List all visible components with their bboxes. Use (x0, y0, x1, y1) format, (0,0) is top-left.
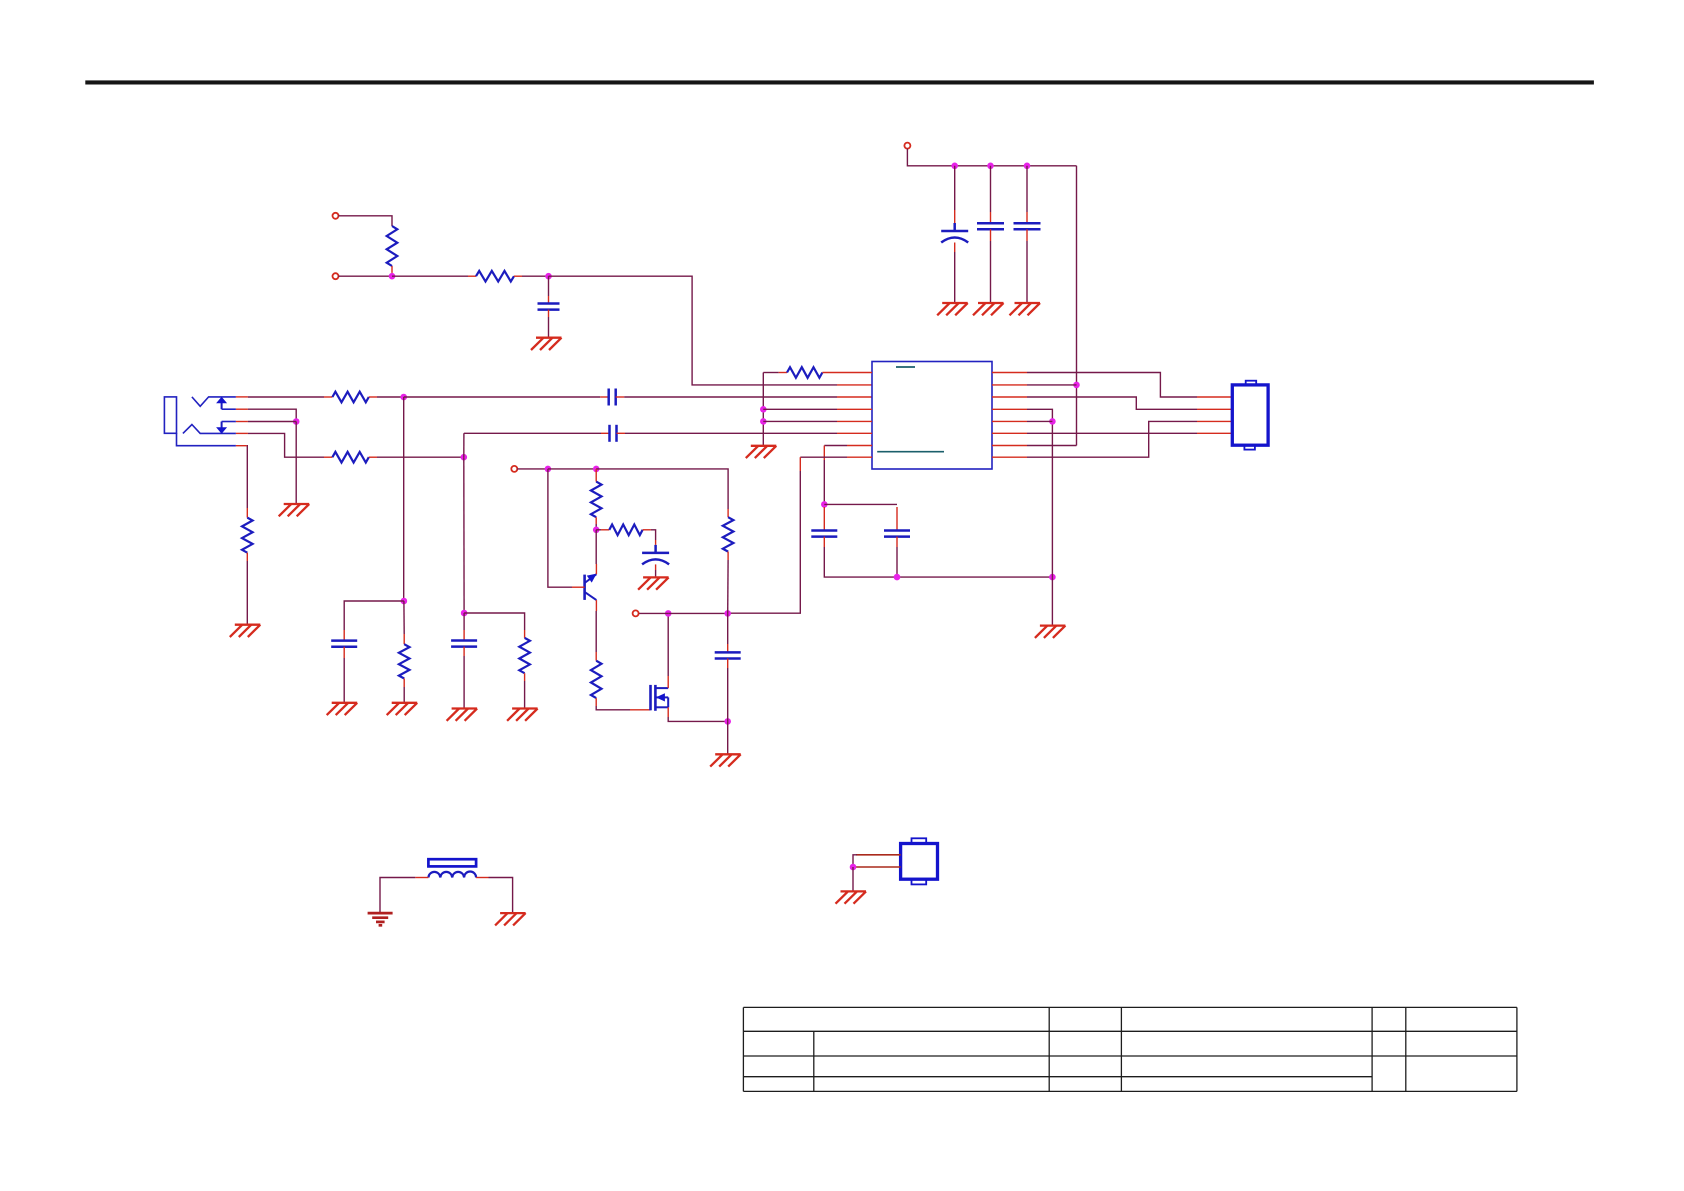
wire (655, 564, 657, 570)
wire tip row (248, 396, 324, 398)
ground (836, 891, 867, 903)
wire (651, 530, 656, 540)
jack pin stubs (236, 396, 248, 398)
drain pin P5 (633, 610, 639, 616)
inductor L1 shield (428, 859, 476, 866)
wire (343, 647, 345, 658)
wire (338, 275, 392, 277)
top horizontal rule (85, 80, 1594, 84)
jack ring contact (183, 425, 236, 434)
wire switch tie (248, 409, 296, 421)
ground (387, 703, 418, 715)
wire sleeve (246, 446, 248, 508)
wire gate stub (630, 709, 651, 711)
junction (760, 418, 767, 425)
wire (896, 537, 898, 547)
junction (821, 501, 828, 508)
junction (461, 454, 468, 461)
ground (279, 504, 310, 516)
wire (823, 507, 825, 531)
wire (548, 276, 550, 296)
wire (823, 537, 825, 547)
wire (990, 166, 992, 212)
earth ground (368, 913, 393, 925)
wire (954, 243, 956, 253)
wire (1051, 577, 1053, 626)
capacitor C4 (1014, 223, 1041, 229)
resistor R9 (596, 529, 601, 531)
wire power vertical (1076, 166, 1078, 446)
resistor R7 (763, 372, 778, 374)
resistor R3 (324, 396, 332, 398)
junction (593, 527, 600, 534)
audio jack J1 body (164, 397, 236, 446)
connector pin P2 (333, 273, 339, 279)
wire (990, 229, 992, 241)
wire drain lead (667, 676, 669, 688)
capacitor C9 (884, 531, 910, 537)
capacitor C12 (451, 641, 477, 647)
wire to connector pin3 (1027, 421, 1197, 457)
wire (548, 468, 596, 470)
junction (951, 163, 958, 170)
IC pin R7 stub (992, 445, 1027, 447)
crystal Y1 body (901, 838, 938, 884)
MOSFET Q2 (651, 685, 669, 711)
ground (495, 913, 525, 925)
wire to IC pin L2 (549, 276, 838, 385)
wire (1027, 409, 1052, 577)
ground (531, 338, 562, 350)
junction (593, 466, 600, 473)
inductor L1 (428, 872, 476, 878)
wire (954, 166, 956, 210)
junction (724, 718, 731, 725)
jack switch arrow up (221, 403, 223, 410)
jack switch arrow down (221, 422, 223, 429)
wire emitter lead (595, 564, 597, 574)
capacitor C10 polarized (642, 545, 669, 565)
resistor R1 (387, 226, 398, 266)
IC pin R4 stub (992, 408, 1027, 410)
IC pin L7 stub (847, 445, 872, 447)
wire (668, 612, 728, 614)
wire (824, 503, 897, 505)
wire control row (517, 468, 548, 470)
IC pin R2 stub (992, 384, 1027, 386)
wire tip node vertical (403, 397, 405, 601)
wire (404, 396, 601, 398)
transistor Q1 (PNP) (585, 574, 597, 601)
wire (896, 507, 898, 531)
IC pin L8 stub (847, 456, 872, 458)
power pin P3 (904, 143, 910, 149)
IC pin L4 stub (763, 408, 837, 410)
ground (507, 709, 537, 721)
wire (596, 706, 630, 710)
junction (1073, 382, 1080, 389)
resistor R12 (519, 638, 530, 673)
ground (710, 754, 741, 766)
junction (401, 598, 408, 605)
capacitor C6 (331, 641, 357, 647)
junction (400, 394, 407, 401)
wire base drive (548, 469, 572, 587)
wire ground vertical (762, 373, 764, 446)
connector J2 body (1232, 381, 1268, 450)
wire (1026, 166, 1028, 212)
IC U1 body (872, 362, 992, 470)
wire base stub (572, 586, 585, 588)
junction (545, 273, 552, 280)
control pin P4 (511, 466, 517, 472)
capacitor C11 (715, 652, 741, 658)
resistor R11 (727, 509, 729, 517)
wire L6 row (463, 433, 465, 457)
wire (344, 601, 404, 630)
crystal pin 2 (856, 866, 901, 868)
wire (403, 601, 405, 634)
wire to connector pin1 (1027, 373, 1197, 398)
junction (665, 610, 672, 617)
wire collector lead (595, 600, 597, 611)
IC pin L1 stub (822, 372, 872, 374)
wire (522, 275, 549, 277)
jack tip contact (192, 397, 236, 406)
capacitor C8 (811, 531, 837, 537)
title block table (743, 1006, 1517, 1008)
ground (327, 703, 358, 715)
wire (853, 855, 857, 867)
junction (545, 466, 552, 473)
wire (403, 687, 405, 703)
junction (1049, 574, 1056, 581)
ground (230, 625, 260, 637)
junction (894, 574, 901, 581)
IC pin R6 stub (992, 432, 1027, 434)
wire (595, 524, 597, 530)
junction (461, 610, 468, 617)
junction (293, 418, 300, 425)
wire to connector pin2 (1027, 397, 1197, 409)
wire (852, 867, 854, 891)
junction (389, 273, 396, 280)
crystal pin 1 (856, 854, 901, 856)
resistor R6 (399, 644, 410, 678)
wire (248, 421, 296, 423)
wire (596, 469, 728, 509)
ground (1035, 626, 1066, 638)
wire (548, 310, 550, 317)
resistor R4 (324, 456, 332, 458)
capacitor C1 (538, 304, 560, 310)
wire ring row (248, 433, 324, 457)
capacitor C5 series (609, 389, 616, 406)
IC pin R3 stub (992, 396, 1027, 398)
junction (850, 864, 857, 871)
wire (463, 613, 465, 630)
ground (638, 577, 669, 589)
wire drain node row (639, 612, 669, 614)
wire (727, 560, 729, 613)
wire (1026, 229, 1028, 241)
junction (760, 406, 767, 413)
IC pin R8 stub (992, 456, 1027, 458)
IC pin R1 stub (992, 372, 1027, 374)
junction (724, 610, 731, 617)
wire gate bias vertical (463, 457, 465, 613)
junction (987, 163, 994, 170)
wire (377, 396, 404, 398)
ground (746, 446, 777, 458)
wire (415, 877, 428, 879)
wire (338, 216, 392, 226)
wire (246, 561, 248, 625)
wire (799, 457, 801, 471)
wire (476, 877, 488, 879)
capacitor C3 (977, 223, 1004, 229)
resistor R2 (476, 271, 514, 282)
wire (392, 275, 468, 277)
wire (727, 613, 729, 644)
wire (463, 647, 465, 656)
resistor R10 (595, 652, 597, 661)
wire power rail (907, 149, 1076, 166)
connector pin P1 (333, 213, 339, 219)
wire to IC pin L3 (616, 396, 625, 398)
wire (727, 721, 729, 754)
IC U1 marking 2 (877, 451, 944, 453)
wire (464, 613, 524, 630)
IC pin R5 stub (992, 420, 1027, 422)
wire (823, 446, 825, 461)
wire source lead (667, 707, 669, 717)
wire (524, 681, 526, 709)
wire to connector pin4 (1027, 432, 1197, 434)
IC pin L5 stub (763, 420, 837, 422)
resistor R5 (246, 508, 248, 518)
ground (973, 303, 1004, 315)
capacitor C2 polarized (941, 223, 968, 243)
wire to IC pin L6 (617, 432, 626, 434)
wire (727, 659, 729, 669)
ground (937, 303, 968, 315)
ground (1010, 303, 1041, 315)
resistor R8 (595, 469, 597, 482)
wire (377, 456, 464, 458)
ground (447, 709, 478, 721)
junction (1049, 418, 1056, 425)
capacitor C7 series (610, 425, 617, 442)
junction (1024, 163, 1031, 170)
IC U1 marking (896, 366, 915, 368)
